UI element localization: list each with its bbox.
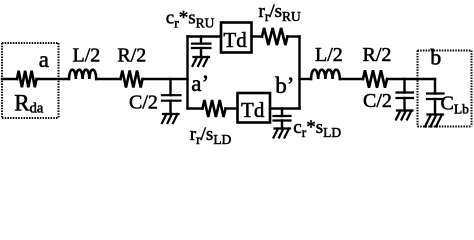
- svg-text:R/2: R/2: [117, 44, 146, 66]
- capacitor CLb: [434, 79, 436, 94]
- wire: [96, 78, 120, 80]
- wire: [340, 78, 363, 80]
- wire to node b': [288, 35, 300, 37]
- delay box Td (bottom): [238, 93, 271, 123]
- svg-text:Td: Td: [223, 28, 247, 52]
- svg-text:C/2: C/2: [129, 91, 158, 113]
- svg-text:Td: Td: [241, 98, 265, 122]
- main wire b' to inductor: [300, 78, 312, 80]
- svg-text:b: b: [430, 44, 441, 69]
- ground (CLb): [425, 115, 443, 127]
- node b' vertical wire: [298, 37, 300, 109]
- capacitor cr*sLD: [281, 109, 283, 117]
- resistor R/2 right: [363, 70, 387, 87]
- node a' vertical wire: [186, 37, 188, 109]
- svg-text:L/2: L/2: [315, 44, 343, 66]
- ground (C/2 left): [162, 114, 179, 123]
- svg-text:L/2: L/2: [73, 44, 101, 66]
- svg-text:C/2: C/2: [363, 90, 392, 112]
- wire to node b inside dashed box: [387, 78, 435, 80]
- bottom branch wire a' to resistor: [188, 107, 203, 109]
- resistor rr/sLD: [203, 100, 226, 117]
- capacitor cr*sRU: [200, 37, 202, 44]
- resistor Rda: [17, 71, 36, 87]
- svg-text:b’: b’: [275, 73, 294, 98]
- ground (C/2 right): [396, 111, 413, 120]
- capacitor C/2 left: [169, 79, 171, 95]
- ground (cr*sRU): [193, 57, 210, 66]
- resistor R/2 left: [121, 71, 143, 88]
- inductor L/2 left: [69, 70, 96, 79]
- wire Td to resistor: [252, 35, 263, 37]
- svg-text:a: a: [39, 47, 49, 72]
- svg-text:a’: a’: [191, 71, 209, 96]
- wire Td to b': [270, 107, 300, 109]
- top branch wire a' to Td: [188, 35, 222, 37]
- dashed box left (Rda network): [2, 43, 59, 118]
- wire to node a': [143, 78, 188, 80]
- delay box Td (top): [221, 23, 252, 53]
- ground (cr*sLD): [274, 129, 291, 138]
- wire to Td bottom: [226, 107, 238, 109]
- dashed box right (CLb load): [418, 51, 472, 127]
- wire node a: [38, 78, 69, 80]
- wire from box edge to resistor Rda: [2, 78, 17, 80]
- capacitor C/2 right: [403, 79, 405, 93]
- resistor rr/sRU: [262, 28, 287, 45]
- inductor L/2 right: [311, 70, 340, 79]
- svg-text:R/2: R/2: [363, 44, 392, 66]
